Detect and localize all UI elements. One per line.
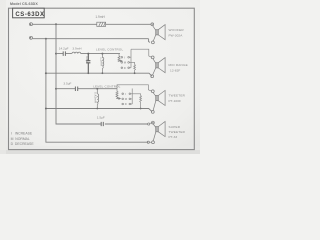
terminal + mid <box>151 56 154 59</box>
wire: tweeter return bus <box>46 109 152 112</box>
svg-text:D: D <box>124 66 126 70</box>
inductor L3 1.2mH shunt <box>102 54 103 74</box>
svg-text:0.42mH: 0.42mH <box>94 92 98 103</box>
svg-text:I INCREASE: I INCREASE <box>11 132 33 136</box>
node: tweeter feed tap <box>55 88 57 90</box>
level control VR1 <box>118 49 152 73</box>
terminal + super tweeter <box>152 121 155 124</box>
terminal - mid <box>151 75 154 78</box>
svg-text:1.5µF: 1.5µF <box>97 116 105 120</box>
svg-text:Model CS-63DX: Model CS-63DX <box>10 2 38 6</box>
svg-text:PT-100F: PT-100F <box>169 99 182 103</box>
node: shunt cap tap <box>87 53 89 55</box>
svg-text:12-82F: 12-82F <box>170 69 180 73</box>
svg-text:M NORMAL: M NORMAL <box>11 137 30 141</box>
svg-text:1.9mH: 1.9mH <box>95 15 105 19</box>
speaker SP3 tweeter <box>153 90 165 110</box>
node: mid bus taps <box>45 72 47 74</box>
svg-text:D DECREASE: D DECREASE <box>11 142 35 146</box>
svg-text:3.5µF: 3.5µF <box>63 81 71 85</box>
frame border <box>9 8 195 149</box>
wire: tweeter feed <box>56 88 117 90</box>
node: mid feed tap <box>55 53 57 55</box>
node: tweeter bus taps <box>45 108 47 110</box>
capacitor C1 14.2uF <box>63 51 65 56</box>
inductor L1 1.9mH on top rail <box>97 22 106 26</box>
svg-text:CS-63DX: CS-63DX <box>15 12 44 18</box>
connector on super return <box>147 141 149 143</box>
svg-text:LEVEL CONTROL: LEVEL CONTROL <box>96 47 123 51</box>
inductor L4 0.42mH shunt <box>97 89 98 109</box>
speaker SP4 super tweeter <box>153 122 165 142</box>
inductor L2 3.9mH <box>72 52 81 53</box>
terminal - tweeter <box>151 111 154 114</box>
capacitor C3 3.5uF <box>75 87 77 92</box>
svg-text:WOOFER: WOOFER <box>169 28 185 32</box>
level control VR2 <box>116 85 152 109</box>
wire: mid return bus <box>46 73 152 76</box>
node: feed tap on top rail <box>55 23 57 25</box>
svg-text:3.8µF: 3.8µF <box>85 56 89 64</box>
wire: minus rail to woofer <box>33 39 150 43</box>
node: shunt coil tap <box>101 53 103 55</box>
wire: mid feed <box>56 53 120 55</box>
svg-text:14.2µF: 14.2µF <box>59 46 69 50</box>
terminal - super tweeter <box>152 141 155 144</box>
input terminal plus <box>30 23 33 26</box>
node: shunt coil tap tweeter <box>96 88 98 90</box>
wire: feed vertical bus <box>56 24 148 124</box>
svg-text:MID RANGE: MID RANGE <box>169 63 188 67</box>
svg-text:TWEETER: TWEETER <box>169 130 186 134</box>
paper background <box>0 0 200 154</box>
capacitor C4 1.5uF <box>101 122 103 126</box>
node: ground tap on minus rail <box>45 38 47 40</box>
svg-text:1.2mH: 1.2mH <box>100 57 104 66</box>
title box CS-63DX <box>13 8 45 18</box>
wire: top rail (+) to woofer <box>33 23 151 25</box>
svg-text:SUPER: SUPER <box>169 125 181 129</box>
input terminal minus <box>30 36 33 39</box>
svg-text:PW-302A: PW-302A <box>169 34 184 38</box>
terminal + tweeter <box>151 90 154 93</box>
speaker SP2 mid range <box>153 58 166 75</box>
capacitor C2 3.8uF shunt <box>86 54 90 74</box>
svg-text:TWEETER: TWEETER <box>169 93 186 97</box>
svg-text:PT-33: PT-33 <box>169 135 178 139</box>
speaker SP1 woofer <box>153 25 166 42</box>
svg-text:3.9mH: 3.9mH <box>72 46 81 50</box>
wire: ground vertical bus <box>46 39 148 143</box>
terminal + woofer <box>151 23 154 26</box>
svg-text:LEVEL CONTROL: LEVEL CONTROL <box>93 85 120 89</box>
svg-text:D: D <box>125 102 127 106</box>
terminal - woofer <box>152 41 155 44</box>
connector on super feed <box>148 123 150 125</box>
